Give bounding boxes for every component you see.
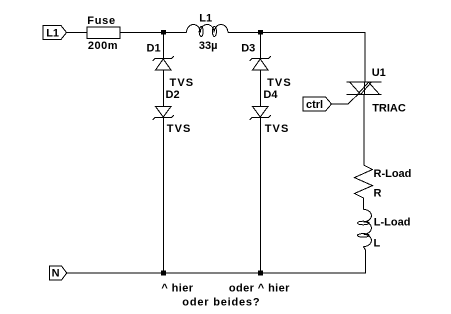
svg-text:D4: D4 <box>263 89 278 101</box>
svg-text:^ hier: ^ hier <box>161 283 193 295</box>
svg-text:TRIAC: TRIAC <box>372 103 406 115</box>
svg-text:Fuse: Fuse <box>87 15 115 27</box>
svg-text:R-Load: R-Load <box>374 168 412 180</box>
svg-text:L1: L1 <box>46 28 59 40</box>
svg-text:L1: L1 <box>199 12 212 24</box>
svg-text:TVS: TVS <box>265 123 290 135</box>
svg-text:oder ^ hier: oder ^ hier <box>229 283 290 295</box>
svg-text:L: L <box>374 237 381 249</box>
svg-text:D1: D1 <box>147 42 161 54</box>
svg-text:200m: 200m <box>88 40 118 52</box>
svg-text:R: R <box>374 187 382 199</box>
svg-text:D3: D3 <box>241 42 255 54</box>
svg-text:TVS: TVS <box>167 123 192 135</box>
svg-text:TVS: TVS <box>267 77 292 89</box>
svg-text:oder beides?: oder beides? <box>182 296 260 308</box>
svg-text:TVS: TVS <box>170 77 195 89</box>
svg-text:ctrl: ctrl <box>306 99 323 111</box>
svg-text:33µ: 33µ <box>199 40 218 52</box>
svg-text:L-Load: L-Load <box>374 216 411 228</box>
svg-text:D2: D2 <box>166 89 180 101</box>
svg-text:N: N <box>52 268 60 280</box>
svg-text:U1: U1 <box>372 67 386 79</box>
